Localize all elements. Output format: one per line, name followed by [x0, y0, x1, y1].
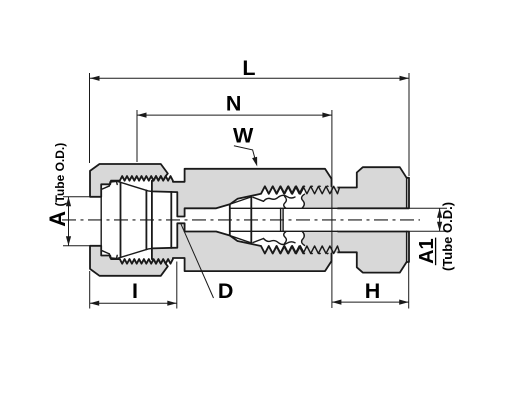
centerline	[62, 219, 420, 221]
leader D	[181, 223, 214, 298]
right nose wavy top	[264, 195, 296, 201]
left nut (bottom half)	[90, 246, 168, 276]
right gland nut (bottom half)	[338, 232, 410, 273]
right back ferrule slants top	[253, 197, 264, 201]
svg-text:D: D	[218, 279, 234, 303]
gland face inner line	[406, 178, 408, 209]
body (bottom half)	[152, 223, 332, 271]
gland shank slab (top)	[302, 187, 338, 208]
left nut shoulder slants	[101, 186, 109, 189]
svg-text:(Tube O.D.): (Tube O.D.)	[440, 202, 455, 271]
left thread zigzag bottom	[120, 259, 173, 264]
svg-text:L: L	[242, 56, 255, 80]
right bore lines over ferrule zone	[230, 207, 338, 209]
svg-text:N: N	[226, 91, 242, 115]
body (top half)	[152, 169, 332, 217]
right thread zigzag top	[261, 186, 340, 194]
left front ferrule slant top	[118, 182, 152, 192]
right back ferrule slants bottom	[253, 239, 264, 243]
svg-text:I: I	[132, 279, 138, 303]
label A1 underline	[435, 238, 437, 266]
right front ferrule slant bottom	[231, 236, 252, 243]
dim N line	[137, 110, 332, 308]
tube end double vertical	[280, 208, 282, 231]
svg-text:H: H	[365, 279, 381, 303]
svg-text:W: W	[233, 123, 254, 147]
gland shank slab (bottom)	[302, 231, 338, 253]
left back ferrule top	[109, 181, 117, 186]
left front ferrule slant bottom	[118, 248, 152, 258]
dim A1	[410, 208, 448, 231]
dim H	[332, 263, 409, 309]
break wavy line (top)	[284, 196, 287, 208]
svg-text:(Tube O.D.): (Tube O.D.)	[53, 143, 67, 207]
left nut (top half)	[90, 164, 168, 197]
dim I	[90, 262, 177, 309]
svg-text:A: A	[45, 211, 70, 227]
right ferrule collar vertical	[250, 197, 252, 243]
right front ferrule slant top	[231, 197, 252, 204]
svg-text:A1: A1	[416, 238, 438, 264]
leader W	[234, 146, 257, 167]
left bore verticals	[100, 197, 102, 246]
right gland nut (top half)	[338, 167, 410, 208]
left back ferrule bottom	[109, 254, 117, 259]
dim L line	[90, 73, 410, 176]
right cone vertical	[229, 204, 231, 235]
dim A	[63, 197, 90, 246]
right thread zigzag bottom	[261, 246, 340, 254]
left thread zigzag top	[120, 176, 173, 181]
